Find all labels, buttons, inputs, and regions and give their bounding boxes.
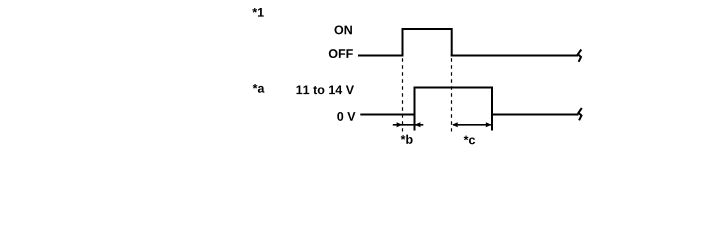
- wire: 0V baseline left: [360, 114, 415, 116]
- label ON: [335, 25, 352, 34]
- dashed guide line at rising edge: [402, 58, 404, 131]
- dashed guide line at falling edge: [451, 58, 453, 131]
- wire: signal *1 ON top: [402, 28, 453, 30]
- wire: OFF baseline right: [451, 55, 578, 57]
- arrow *b measure line (continuous through both edges): [393, 124, 424, 126]
- wire: signal *1 rising edge: [402, 29, 404, 57]
- label *c: [464, 136, 475, 145]
- wire: signal *1 falling edge: [451, 28, 453, 57]
- label *1: [252, 8, 263, 17]
- label OFF: [329, 49, 353, 58]
- wire: signal *a top 11-14V level: [414, 87, 494, 89]
- label 11 to 14 V: [296, 86, 353, 95]
- wire: 0V baseline right: [491, 114, 579, 116]
- arrow *b right head (points left, tip at rising edge): [415, 122, 421, 127]
- label *b: [401, 135, 413, 144]
- label *a: [253, 84, 265, 93]
- arrow *c (double-headed between guide line and falling edge): [452, 122, 492, 127]
- label 0 V: [337, 112, 355, 121]
- wire: signal *a rising edge (extended below baseline): [414, 87, 416, 131]
- wire: signal *a falling edge (extended below baseline): [491, 87, 493, 131]
- break symbol lower: [578, 108, 581, 120]
- arrow *b left head (points right, tip at dashed line): [397, 122, 403, 127]
- wire: OFF baseline left: [358, 55, 404, 57]
- break symbol upper: [578, 50, 581, 62]
